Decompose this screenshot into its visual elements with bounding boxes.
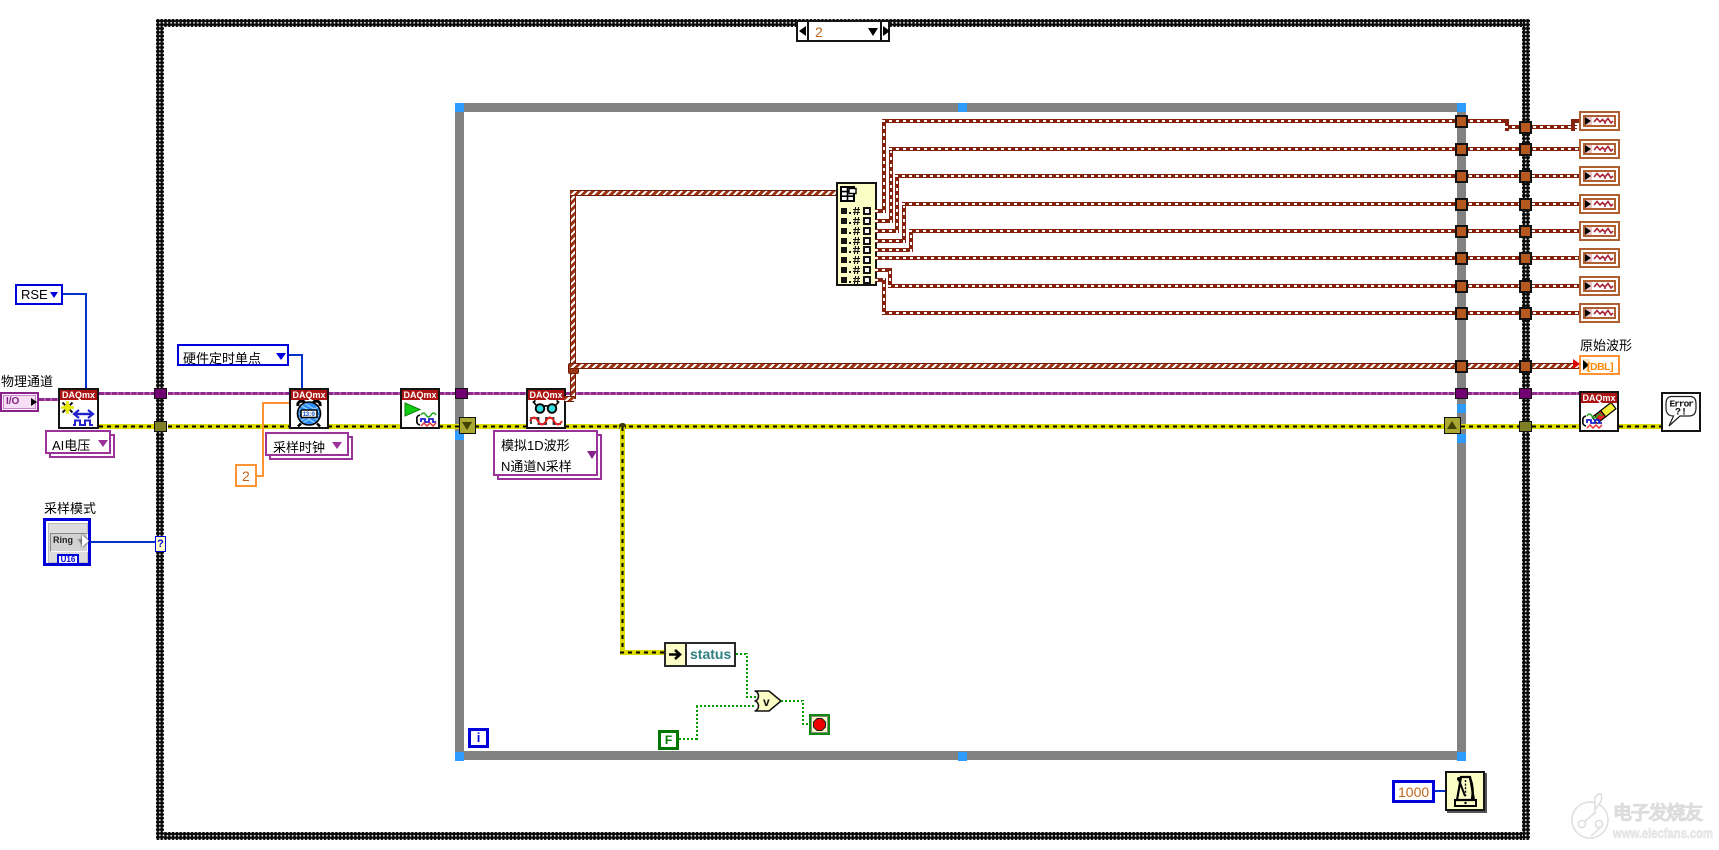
index array row 7 glyphs xyxy=(841,267,847,273)
purple task wire frame->clear xyxy=(1532,392,1579,395)
waveform wire row 5 xyxy=(875,248,913,252)
index array row 2 glyphs xyxy=(841,218,847,224)
error out indicator xyxy=(1661,392,1701,432)
while loop border xyxy=(455,103,1466,760)
waveform wire row 7 xyxy=(875,268,892,272)
error wire start->shift register xyxy=(439,424,460,429)
waveform indicator 2 xyxy=(1579,139,1620,159)
error wire branch down to status xyxy=(620,427,625,655)
waveform tunnel frame row 5 xyxy=(1519,225,1532,238)
index array row 5 glyphs xyxy=(841,247,847,253)
loop handle top-center xyxy=(958,103,967,112)
purple tunnel frame left xyxy=(154,388,167,399)
模拟1D波形 N通道N采样 enum constant xyxy=(497,434,602,480)
waveform tunnel loop row 5 xyxy=(1455,225,1468,238)
waveform array wire junction->loop right (原始波形) xyxy=(570,363,1456,369)
purple task wire start->loop xyxy=(439,392,456,395)
waveform indicator 4 xyxy=(1579,194,1620,214)
ring control 采样模式 xyxy=(43,518,91,566)
waveform tunnel frame row 1 xyxy=(1519,121,1532,134)
purple task wire read->loop right xyxy=(565,392,1456,395)
stop button terminal xyxy=(809,714,830,735)
error wire create->frame xyxy=(99,424,156,429)
left shift register xyxy=(459,417,476,434)
waveform indicator 7 xyxy=(1579,276,1620,296)
error wire shift register->read xyxy=(475,424,526,429)
waveform wire row 3 xyxy=(875,229,899,233)
case selector label box xyxy=(796,20,890,42)
采样时钟 enum constant xyxy=(269,436,353,460)
waveform array junction xyxy=(568,363,579,374)
waveform indicator 1 xyxy=(1579,111,1620,131)
waveform tunnel loop row 2 xyxy=(1455,143,1468,156)
waveform array tunnel frame right xyxy=(1519,360,1532,373)
waveform wire row 1 xyxy=(875,209,886,213)
wire I/O to create node xyxy=(39,398,58,401)
waveform indicator 5 xyxy=(1579,221,1620,241)
purple task wire loop->read xyxy=(468,392,526,395)
bool wire status -> or gate xyxy=(736,653,748,655)
loop handle right-above-SR xyxy=(1457,404,1466,413)
svg-text:?!: ?! xyxy=(1675,408,1687,419)
waveform wire row 4 xyxy=(875,239,906,243)
purple task wire frame->timing xyxy=(168,392,289,395)
index array row 1 glyphs xyxy=(841,208,847,214)
waveform wire row 2 xyxy=(875,219,893,223)
index array node xyxy=(836,182,877,286)
purple task wire loop->frame right xyxy=(1467,392,1519,395)
bool constant F xyxy=(658,730,679,750)
loop handle left-middle xyxy=(455,431,464,440)
waveform array wire read->up riser xyxy=(570,194,576,399)
label 采样模式 xyxy=(44,498,96,517)
error tunnel frame right xyxy=(1519,421,1532,432)
waveform tunnel frame row 4 xyxy=(1519,198,1532,211)
error wire clear->error out xyxy=(1619,424,1661,429)
waveform array tunnel loop right xyxy=(1455,360,1468,373)
waveform indicator 8 xyxy=(1579,303,1620,323)
waveform indicator 6 xyxy=(1579,248,1620,268)
watermark logo xyxy=(1566,793,1719,850)
error wire timing->start xyxy=(328,424,400,429)
case structure frame border right xyxy=(1522,19,1530,840)
DAQmx timing node xyxy=(289,388,329,429)
waveform tunnel loop row 4 xyxy=(1455,198,1468,211)
index array row 3 glyphs xyxy=(841,228,847,234)
waveform wire row 8 xyxy=(875,278,886,282)
numeric constant 2 xyxy=(235,464,257,487)
or gate xyxy=(753,690,783,712)
loop handle bottom-left xyxy=(455,752,464,761)
DAQmx clear task node xyxy=(1579,391,1619,432)
case structure frame border top xyxy=(156,19,1530,27)
purple tunnel frame right xyxy=(1519,388,1532,399)
waveform tunnel loop row 3 xyxy=(1455,170,1468,183)
loop handle top-right xyxy=(1457,103,1466,112)
waveform tunnel loop row 8 xyxy=(1455,307,1468,320)
case structure frame border bottom xyxy=(156,832,1530,840)
waveform tunnel loop row 1 xyxy=(1455,115,1468,128)
DAQmx read node xyxy=(526,388,566,429)
waveform tunnel frame row 6 xyxy=(1519,252,1532,265)
purple tunnel loop left xyxy=(455,388,468,399)
purple task wire timing->start xyxy=(328,392,400,395)
iteration terminal i xyxy=(468,728,489,748)
error wire frame->timing xyxy=(168,424,289,429)
error wire read->right shift register xyxy=(565,424,1445,429)
index array row 6 glyphs xyxy=(841,257,847,263)
purple task wire create->frame xyxy=(99,392,156,395)
error wire frame->clear xyxy=(1532,424,1579,429)
wire ring to frame tunnel xyxy=(91,541,156,543)
case structure frame border left xyxy=(156,19,164,840)
bool wire or gate -> stop terminal xyxy=(781,700,804,702)
label 物理通道 xyxy=(1,371,53,390)
numeric constant 1000 xyxy=(1392,780,1435,803)
loop handle bottom-center xyxy=(958,752,967,761)
waveform wire row 6 xyxy=(875,256,1581,260)
AI电压 enum constant xyxy=(49,434,115,458)
error tunnel frame left xyxy=(154,421,167,432)
waveform tunnel frame row 8 xyxy=(1519,307,1532,320)
DAQmx create virtual channel node xyxy=(58,388,99,429)
bool wire F -> or gate xyxy=(679,738,697,740)
waveform tunnel frame row 2 xyxy=(1519,143,1532,156)
waveform array wire stub at read output xyxy=(564,396,574,402)
硬件定时单点 enum constant xyxy=(177,344,289,366)
DBL array indicator xyxy=(1579,355,1620,375)
waveform array wire frame->DBL indicator xyxy=(1532,363,1580,369)
index array row 4 glyphs xyxy=(841,238,847,244)
purple tunnel loop right xyxy=(1455,388,1468,399)
waveform tunnel frame row 7 xyxy=(1519,280,1532,293)
svg-text:电子发烧友: 电子发烧友 xyxy=(1613,801,1703,824)
DAQmx start task node xyxy=(400,388,440,429)
error wire branch junction xyxy=(619,423,626,430)
waveform array wire top run to index array xyxy=(570,190,836,196)
label 原始波形 xyxy=(1580,335,1632,354)
right shift register xyxy=(1444,417,1461,434)
error wire loop->frame right xyxy=(1461,424,1519,429)
loop handle right-below-SR xyxy=(1457,434,1466,443)
svg-text:13:0: 13:0 xyxy=(303,411,316,418)
waveform tunnel loop row 6 xyxy=(1455,252,1468,265)
wire 2 to timing node xyxy=(257,475,264,477)
loop handle bottom-right xyxy=(1457,752,1466,761)
tunnel ? on frame xyxy=(155,536,166,552)
wire RSE to create node xyxy=(63,293,86,295)
svg-text:www.elecfans.com: www.elecfans.com xyxy=(1612,826,1713,841)
RSE enum constant xyxy=(15,284,63,305)
unbundle status node xyxy=(664,642,736,667)
loop handle top-left xyxy=(455,103,464,112)
waveform indicator 3 xyxy=(1579,166,1620,186)
wire 1000 to wait xyxy=(1435,790,1445,792)
waveform array wire loop->frame right xyxy=(1467,363,1519,369)
I/O control xyxy=(0,392,39,412)
svg-text:v: v xyxy=(763,695,770,709)
index array row 8 glyphs xyxy=(841,277,847,283)
waveform tunnel loop row 7 xyxy=(1455,280,1468,293)
wire 硬件定时单点 to timing node xyxy=(289,354,303,356)
wait ms (metronome) xyxy=(1445,771,1485,811)
red arrow at DBL input xyxy=(1573,359,1580,369)
waveform tunnel frame row 3 xyxy=(1519,170,1532,183)
